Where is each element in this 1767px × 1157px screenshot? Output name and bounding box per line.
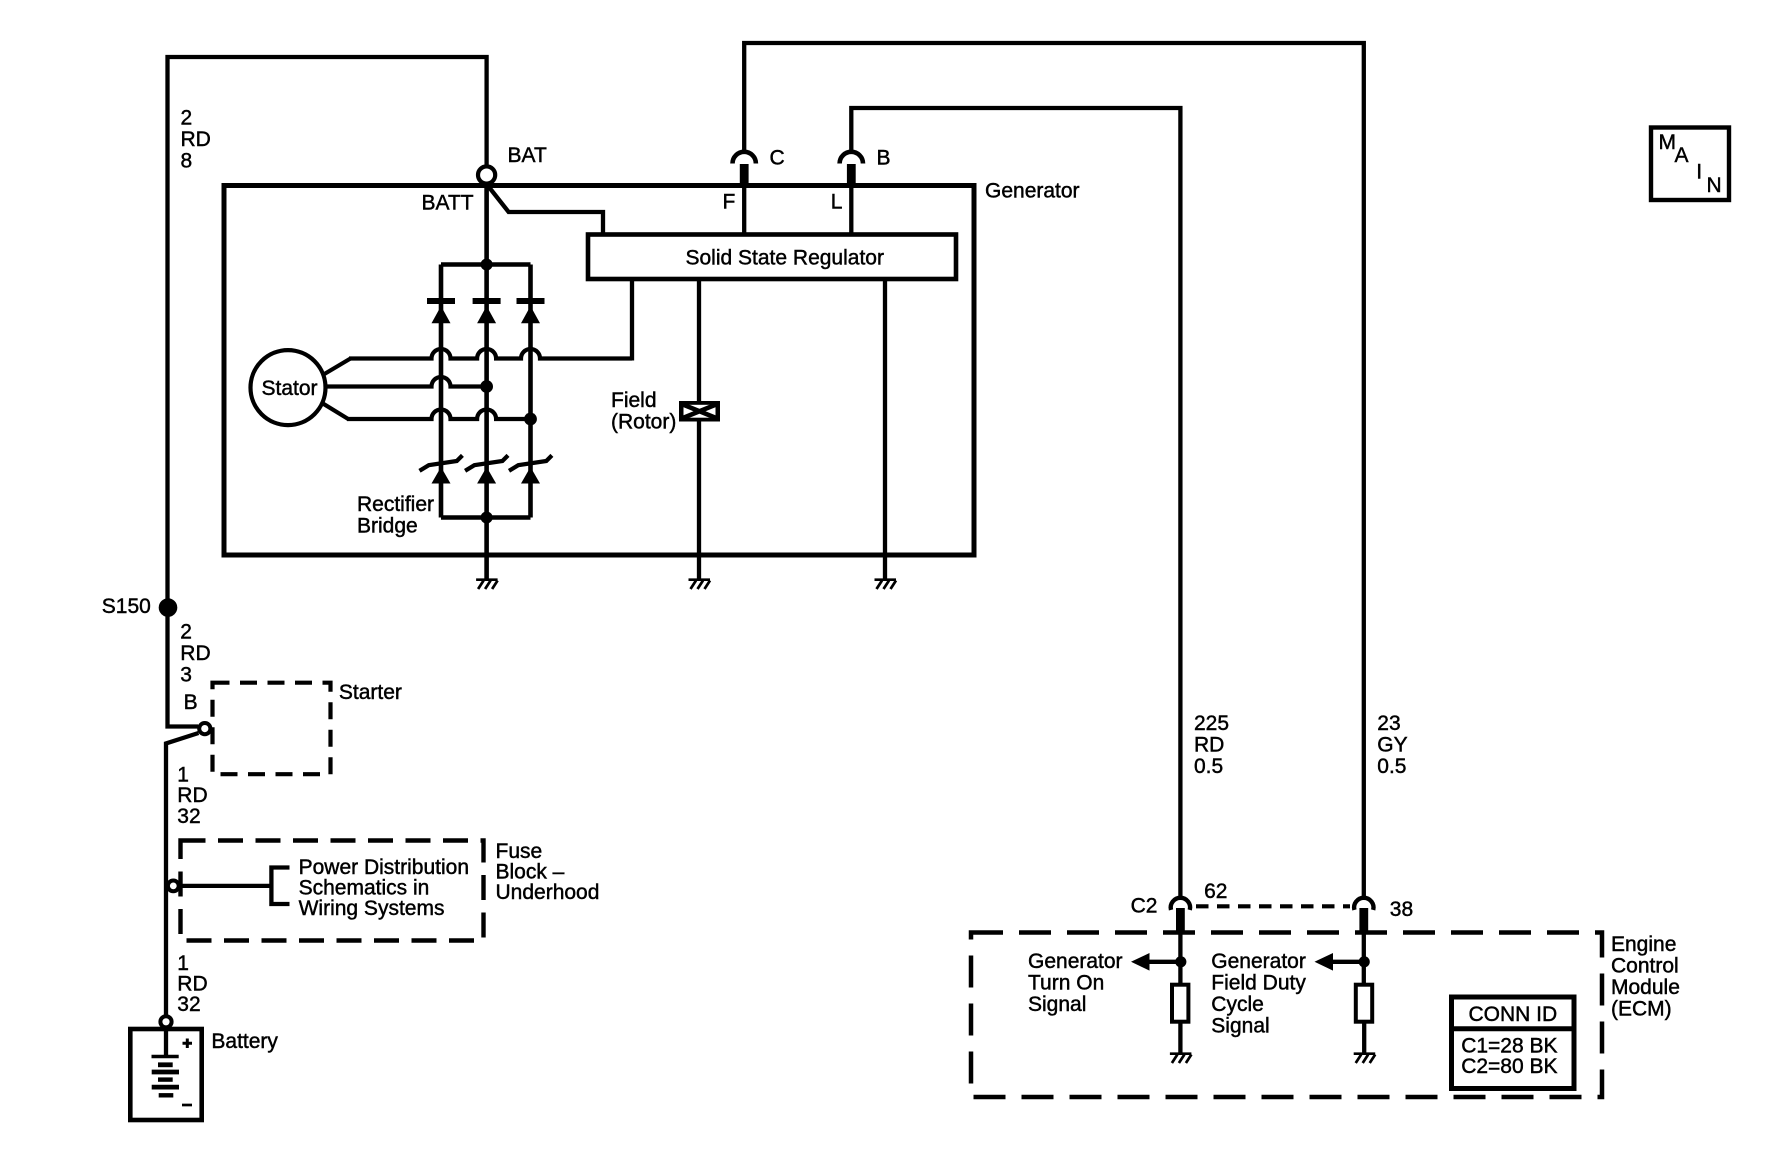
splice S150 <box>159 598 178 617</box>
svg-text:23: 23 <box>1377 712 1400 735</box>
svg-text:32: 32 <box>177 993 200 1016</box>
svg-text:F: F <box>723 191 736 214</box>
solid state regulator box U1 <box>588 235 956 280</box>
connector B pin bar <box>847 164 856 185</box>
svg-text:8: 8 <box>181 149 193 172</box>
dashed connector tie line C2-38 <box>1196 904 1350 908</box>
battery plus sign <box>183 1039 193 1049</box>
svg-text:Starter: Starter <box>339 681 402 704</box>
svg-text:M: M <box>1659 131 1677 154</box>
wire: rectifier right leg <box>528 265 533 518</box>
terminal BAT ring <box>478 166 495 183</box>
stator winding circle <box>251 350 326 425</box>
starter dashed box <box>213 683 331 775</box>
svg-text:Bridge: Bridge <box>357 514 418 537</box>
svg-text:L: L <box>831 191 843 214</box>
svg-text:C2: C2 <box>1131 895 1158 918</box>
svg-text:38: 38 <box>1390 898 1413 921</box>
svg-text:Turn On: Turn On <box>1028 972 1104 995</box>
svg-text:RD: RD <box>181 128 211 151</box>
CONN ID table box <box>1452 997 1575 1089</box>
svg-text:I: I <box>1696 160 1702 183</box>
wire: regulator right leg to ground <box>883 279 887 579</box>
generator box <box>224 186 974 556</box>
svg-text:32: 32 <box>177 805 200 828</box>
wire: phase 1 riser to regulator <box>630 279 634 361</box>
connector pin 38 bar <box>1359 908 1368 933</box>
svg-text:Field Duty: Field Duty <box>1211 972 1306 995</box>
svg-text:Signal: Signal <box>1028 993 1086 1016</box>
diode D1 (top left) <box>427 298 455 304</box>
avalanche diode D6 (bottom right) <box>509 455 552 470</box>
svg-text:BATT: BATT <box>422 192 474 215</box>
svg-text:Generator: Generator <box>1028 950 1123 973</box>
CONN ID header divider <box>1452 1026 1575 1031</box>
connector B half-ring <box>840 152 863 164</box>
svg-text:(Rotor): (Rotor) <box>611 410 676 433</box>
wire below resistor R1 <box>1178 1022 1182 1053</box>
svg-text:C: C <box>770 147 785 170</box>
connector pin 38 half-ring <box>1354 898 1373 910</box>
arrow: generator field duty cycle signal <box>1331 960 1365 964</box>
wire: terminal B to ECM pin 62 <box>851 108 1180 898</box>
svg-text:A: A <box>1675 144 1689 167</box>
svg-text:N: N <box>1707 174 1722 197</box>
svg-text:Engine: Engine <box>1611 933 1676 956</box>
wire: pin 38 to ground through resistor <box>1362 933 1366 985</box>
battery box <box>130 1029 201 1120</box>
svg-text:0.5: 0.5 <box>1377 755 1406 778</box>
svg-text:225: 225 <box>1194 712 1229 735</box>
junction phase 2 to centre leg <box>480 380 493 393</box>
wire: tap to power distribution bracket <box>181 884 272 888</box>
svg-text:(ECM): (ECM) <box>1611 997 1672 1020</box>
battery terminal ring <box>160 1016 171 1027</box>
svg-text:C1=28 BK: C1=28 BK <box>1461 1034 1557 1057</box>
svg-text:3: 3 <box>180 664 192 687</box>
svg-text:Solid State Regulator: Solid State Regulator <box>686 246 884 269</box>
ground G3 (regulator) <box>875 578 897 581</box>
junction field duty cycle signal <box>1359 956 1370 967</box>
wire: terminal C to ECM pin 38 <box>744 43 1364 898</box>
wire: pin 62 to ground through resistor <box>1178 933 1182 985</box>
wire: rectifier centre leg BAT to ground <box>484 186 489 580</box>
svg-text:Stator: Stator <box>262 377 318 400</box>
wire: L lead into regulator <box>849 188 853 235</box>
junction on rectifier top bus <box>481 259 493 271</box>
junction phase 3 to right leg <box>524 413 537 426</box>
wire: starter lead-in diagonal down to battery run <box>166 733 199 1015</box>
svg-text:1: 1 <box>177 763 189 786</box>
svg-text:GY: GY <box>1377 734 1407 757</box>
wire: BATT diagonal into regulator <box>489 187 604 235</box>
bracket to power distribution text <box>271 868 289 905</box>
ground G2 (field) <box>689 578 711 581</box>
svg-text:Cycle: Cycle <box>1211 993 1264 1016</box>
svg-text:Rectifier: Rectifier <box>357 493 434 516</box>
svg-text:B: B <box>184 691 198 714</box>
svg-text:0.5: 0.5 <box>1194 755 1223 778</box>
svg-text:C2=80 BK: C2=80 BK <box>1461 1055 1557 1078</box>
svg-text:Generator: Generator <box>1211 950 1306 973</box>
svg-text:Underhood: Underhood <box>496 881 600 904</box>
diode D3 (top right) <box>517 298 545 304</box>
ground G4 (ECM left) <box>1170 1052 1192 1055</box>
svg-text:62: 62 <box>1204 880 1227 903</box>
battery cell plates <box>152 1055 179 1058</box>
wire: S150 down to starter terminal <box>168 607 199 727</box>
svg-text:2: 2 <box>180 621 192 644</box>
arrow: generator turn on signal <box>1147 960 1181 964</box>
svg-text:RD: RD <box>177 784 207 807</box>
starter terminal ring B <box>199 723 210 734</box>
wire: rectifier left leg <box>439 265 444 518</box>
svg-text:Module: Module <box>1611 976 1680 999</box>
svg-text:2: 2 <box>181 106 193 129</box>
connector pin 62 bar <box>1176 908 1185 933</box>
svg-text:Control: Control <box>1611 954 1679 977</box>
svg-text:Field: Field <box>611 389 657 412</box>
fuse block dashed box <box>181 841 484 941</box>
svg-text:CONN ID: CONN ID <box>1468 1003 1557 1026</box>
MAIN page tab box <box>1651 128 1729 201</box>
ECM dashed box <box>971 933 1602 1098</box>
resistor R1 <box>1172 985 1188 1022</box>
avalanche diode D4 (bottom left) <box>420 455 463 470</box>
svg-text:Battery: Battery <box>211 1030 278 1053</box>
connector C half-ring <box>733 152 756 164</box>
wire: battery feed top horizontal and left vertical (2 RD 8) <box>168 57 487 607</box>
wire below resistor R2 <box>1362 1022 1366 1053</box>
field rotor coil symbol <box>679 401 720 422</box>
svg-text:Generator: Generator <box>985 179 1080 202</box>
battery internal lead <box>164 1029 168 1056</box>
svg-text:B: B <box>877 147 891 170</box>
wire: field lead regulator to ground <box>697 279 701 579</box>
junction on rectifier bottom bus <box>481 512 493 524</box>
ground G5 (ECM right) <box>1354 1052 1376 1055</box>
connector C pin bar <box>740 164 749 185</box>
svg-text:Signal: Signal <box>1211 1015 1269 1038</box>
diode D2 (top centre) <box>473 298 501 304</box>
connector C2 pin 62 half-ring <box>1171 898 1190 910</box>
resistor R2 <box>1356 985 1372 1022</box>
wire: rectifier bottom bus <box>441 515 531 520</box>
svg-text:RD: RD <box>180 642 210 665</box>
wire: stator phase 1 (top) with hops <box>324 359 350 375</box>
avalanche diode D5 (bottom centre) <box>465 455 508 470</box>
wire: F lead into regulator <box>742 188 746 235</box>
svg-text:S150: S150 <box>102 595 151 618</box>
fuse block tap ring <box>168 881 179 892</box>
svg-text:RD: RD <box>1194 734 1224 757</box>
wire: stator phase 3 (bottom) with hops <box>323 404 348 419</box>
junction turn-on signal <box>1175 956 1186 967</box>
ground G1 (rectifier) <box>476 578 498 581</box>
svg-text:BAT: BAT <box>508 144 547 167</box>
wire: stator phase 2 (middle) with hop <box>326 377 487 387</box>
wire: rectifier top bus <box>441 262 531 267</box>
svg-text:Wiring Systems: Wiring Systems <box>299 897 445 920</box>
battery minus sign <box>182 1104 192 1107</box>
